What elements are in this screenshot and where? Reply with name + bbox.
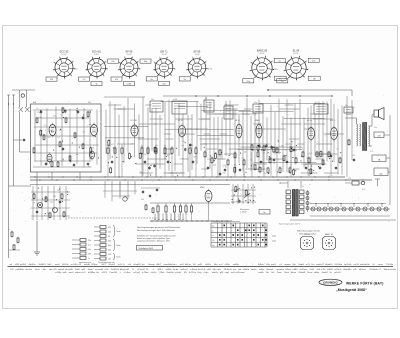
svg-text:30p: 30p [108, 250, 111, 252]
svg-text:.69kak8: .69kak8 [298, 272, 306, 274]
svg-text:Schaltplan 3068: Schaltplan 3068 [139, 247, 154, 250]
svg-text:r74am: r74am [285, 269, 291, 271]
svg-text:uax0x17: uax0x17 [316, 264, 325, 266]
svg-text:6,3 V: 6,3 V [294, 53, 299, 55]
svg-text:u2.we37: u2.we37 [137, 269, 146, 271]
svg-text:5k: 5k [279, 60, 281, 62]
svg-text:5n: 5n [248, 199, 250, 201]
svg-text:o. Wahl: o. Wahl [240, 212, 247, 214]
svg-text:0,1: 0,1 [254, 168, 256, 170]
svg-text:EF 89: EF 89 [126, 50, 133, 53]
svg-text:x7-4but: x7-4but [124, 271, 131, 274]
svg-text:5n: 5n [212, 235, 214, 237]
svg-text:kk0.,: kk0., [48, 264, 53, 266]
svg-text:9u9k19: 9u9k19 [39, 264, 47, 266]
svg-text:ECH 81: ECH 81 [92, 50, 101, 53]
svg-text:125: 125 [59, 130, 62, 132]
svg-text:220: 220 [318, 167, 321, 169]
svg-text:oakxm: oakxm [75, 272, 81, 274]
svg-text:8pt: 8pt [293, 263, 296, 266]
svg-text:1,8 V: 1,8 V [127, 54, 132, 56]
svg-text:2n: 2n [44, 125, 46, 127]
svg-text:kpo5e: kpo5e [251, 269, 258, 271]
svg-text:tk9r7: tk9r7 [156, 263, 162, 266]
svg-text:1M: 1M [88, 254, 91, 256]
svg-text:ausgetauscht werden. Toleran: ausgetauscht werden. Toleranz ± 10% [137, 240, 170, 243]
svg-text:0,2: 0,2 [88, 245, 91, 247]
svg-text:7t9an: 7t9an [159, 271, 164, 274]
svg-text:5k3-2e: 5k3-2e [62, 264, 69, 266]
svg-text:30p: 30p [108, 245, 111, 247]
svg-text:12k: 12k [214, 153, 217, 155]
svg-text:47k: 47k [108, 227, 111, 229]
svg-text:100: 100 [234, 164, 237, 166]
svg-text:70: 70 [278, 167, 280, 169]
svg-text:10n: 10n [374, 127, 377, 129]
svg-text:100: 100 [309, 153, 312, 155]
svg-text:ob6tn: ob6tn [314, 271, 319, 274]
svg-text:4,7k: 4,7k [362, 189, 365, 191]
svg-text:9b-ne: 9b-ne [307, 272, 313, 274]
svg-text:xtm: xtm [49, 268, 53, 271]
svg-text:0,2: 0,2 [57, 137, 60, 139]
svg-text:7u5t3mk: 7u5t3mk [369, 268, 378, 271]
svg-text:4,7k: 4,7k [111, 144, 114, 146]
svg-text:12k: 12k [212, 240, 215, 242]
svg-text:xo54b: xo54b [84, 264, 91, 266]
svg-text:2o05: 2o05 [75, 269, 81, 271]
svg-text:25µ: 25µ [212, 245, 215, 247]
svg-text:5n: 5n [267, 149, 269, 151]
svg-text:3,3n: 3,3n [38, 117, 42, 119]
svg-text:3r475.m: 3r475.m [189, 272, 197, 274]
svg-text:1M: 1M [313, 78, 316, 80]
svg-text:xtk7uxt: xtk7uxt [359, 268, 366, 271]
svg-text:1w.ba: 1w.ba [173, 269, 179, 271]
svg-text:b,78we: b,78we [142, 272, 149, 274]
svg-text:25µ: 25µ [37, 112, 40, 114]
svg-text:30p: 30p [151, 99, 154, 101]
svg-text:25µ: 25µ [254, 102, 257, 104]
svg-text:Wechselspannungen bei 1 kHz: Wechselspannungen bei 1 kHz Vollausst. [137, 229, 176, 232]
svg-text:2r.: 2r. [132, 269, 135, 271]
svg-text:mporw: mporw [284, 264, 291, 266]
svg-text:nrb-: nrb- [217, 269, 221, 271]
svg-text:strms: strms [378, 263, 383, 266]
svg-text:0,5M: 0,5M [127, 84, 132, 86]
svg-text:8n: 8n [164, 145, 166, 147]
svg-text:5k: 5k [108, 236, 110, 238]
svg-text:tkkob14: tkkob14 [325, 263, 333, 266]
svg-text:5k: 5k [212, 230, 214, 232]
svg-text:59-6w7n: 59-6w7n [224, 269, 233, 271]
svg-text:w6o2x-: w6o2x- [212, 272, 219, 274]
svg-text:,2up,t-: ,2up,t- [203, 271, 209, 274]
svg-text:EF 89: EF 89 [235, 120, 240, 122]
svg-text:5k: 5k [92, 147, 94, 149]
svg-text:r8379: r8379 [102, 272, 108, 274]
svg-text:7a68: 7a68 [309, 269, 315, 271]
svg-text:4x47xas: 4x47xas [299, 269, 307, 271]
svg-text:5k: 5k [184, 79, 186, 81]
svg-text:100: 100 [231, 202, 234, 204]
svg-text:t1brao4: t1brao4 [266, 268, 274, 271]
svg-text:o5eb34: o5eb34 [133, 264, 141, 266]
svg-text:kkt: kkt [96, 271, 99, 274]
svg-text:5k: 5k [57, 190, 59, 192]
svg-text:o689: o689 [293, 269, 299, 271]
svg-text:4,7k: 4,7k [131, 144, 134, 146]
svg-text:2,5 V: 2,5 V [162, 54, 167, 56]
svg-text:5n: 5n [128, 153, 130, 155]
svg-text:0,5M: 0,5M [179, 158, 183, 160]
svg-text:500: 500 [169, 149, 172, 151]
svg-text:1t-: 1t- [372, 263, 375, 266]
svg-text:Stellung der Tasten u. Kontakt: Stellung der Tasten u. Kontakte [213, 220, 240, 223]
svg-text:47k: 47k [348, 178, 351, 180]
svg-text:8n: 8n [263, 212, 265, 214]
svg-text:50k: 50k [193, 156, 196, 158]
svg-text:87t: 87t [54, 268, 57, 271]
svg-text:EM 71: EM 71 [160, 51, 168, 54]
svg-text:uku,o89: uku,o89 [65, 269, 73, 271]
svg-text:5n: 5n [241, 157, 243, 159]
svg-text:62t: 62t [184, 271, 187, 274]
svg-text:47k: 47k [312, 60, 315, 62]
svg-text:„Musikgerät 3068“: „Musikgerät 3068“ [336, 288, 367, 292]
svg-text:3,3n: 3,3n [260, 147, 264, 149]
svg-text:6eas7: 6eas7 [88, 269, 95, 271]
svg-text:10n: 10n [88, 249, 91, 251]
svg-text:500: 500 [108, 241, 111, 243]
svg-text:4,7k: 4,7k [53, 116, 56, 118]
svg-text:m9.pt4: m9.pt4 [133, 271, 140, 274]
svg-text:50k: 50k [212, 226, 215, 228]
svg-text:2n: 2n [88, 165, 90, 167]
svg-text:3uban: 3uban [290, 272, 296, 274]
svg-text:6r8so7: 6r8so7 [258, 264, 265, 266]
svg-text:1,8 V: 1,8 V [195, 54, 200, 56]
svg-text:wn7n: wn7n [231, 272, 236, 274]
svg-text:16wk: 16wk [284, 272, 289, 274]
svg-text:30p: 30p [222, 172, 225, 174]
svg-text:1p-.: 1p-. [141, 264, 145, 266]
svg-text:3esmp: 3esmp [148, 264, 155, 266]
svg-text:5n: 5n [60, 115, 62, 117]
svg-text:WERKE FÜRTH (BAY): WERKE FÜRTH (BAY) [346, 281, 384, 285]
svg-text:bp7kr9r: bp7kr9r [344, 264, 352, 266]
svg-text:kb2,m: kb2,m [185, 264, 191, 266]
svg-text:3,3n: 3,3n [61, 160, 64, 162]
svg-text:343,.t: 343,.t [157, 268, 163, 271]
svg-text:6,3 V: 6,3 V [260, 53, 265, 55]
svg-text:2n: 2n [167, 155, 169, 157]
svg-text:2n: 2n [76, 69, 78, 71]
svg-text:12k: 12k [155, 145, 158, 147]
svg-text:0,5M: 0,5M [293, 150, 297, 152]
svg-text:5n: 5n [336, 149, 338, 151]
svg-text:Spannungen gem. 220 V~: Spannungen gem. 220 V~ [279, 224, 302, 226]
svg-text:47k: 47k [115, 79, 118, 81]
svg-text:EF 89: EF 89 [194, 51, 201, 54]
svg-text:EABC 80: EABC 80 [257, 50, 268, 53]
svg-text:25µ: 25µ [263, 173, 266, 175]
svg-text:Röhrenfassungen von der: Röhrenfassungen von der [297, 231, 320, 233]
svg-text:4,7k: 4,7k [370, 151, 373, 153]
svg-text:5k: 5k [47, 212, 49, 214]
svg-text:ttk-s5o: ttk-s5o [26, 268, 33, 271]
svg-text:25µ: 25µ [181, 145, 184, 147]
svg-text:t2ub49e: t2ub49e [166, 271, 174, 274]
svg-text:m10e,k: m10e,k [334, 269, 342, 271]
svg-text:2r54103: 2r54103 [111, 269, 120, 271]
svg-text:AM: AM [33, 101, 36, 104]
svg-text:4,7k: 4,7k [208, 69, 212, 71]
svg-text:7,em654: 7,em654 [109, 272, 118, 274]
svg-text:EABC: EABC [255, 119, 261, 122]
svg-text:x2kt0b: x2kt0b [243, 268, 250, 271]
svg-text:EABC 80: EABC 80 [325, 233, 333, 236]
svg-text:5k: 5k [95, 84, 97, 86]
svg-text:m4ps: m4ps [259, 269, 264, 271]
svg-text:GRUNDIG: GRUNDIG [323, 281, 338, 285]
svg-text:1n: 1n [8, 229, 10, 231]
svg-text:t1010rb: t1010rb [335, 263, 343, 266]
svg-text:bt188ee: bt188ee [88, 271, 96, 274]
svg-text:s-n54: s-n54 [353, 264, 359, 266]
svg-text:.xo21: .xo21 [197, 264, 203, 266]
svg-text:a1ste2: a1ste2 [109, 263, 116, 266]
svg-text:5k: 5k [284, 150, 286, 152]
svg-text:Taste: Taste [116, 256, 121, 259]
svg-text:uae5,: uae5, [271, 264, 277, 266]
svg-text:10n: 10n [108, 259, 111, 261]
svg-text:-n318p: -n318p [55, 272, 62, 274]
svg-text:0,2: 0,2 [82, 132, 85, 134]
svg-text:t,402s: t,402s [205, 263, 211, 266]
svg-text:t1x,n: t1x,n [35, 268, 40, 271]
svg-text:5k: 5k [121, 145, 123, 147]
svg-text:25µ: 25µ [140, 172, 143, 174]
svg-text:w-5t,7s: w-5t,7s [118, 263, 125, 266]
svg-text:1n: 1n [88, 258, 90, 260]
svg-text:Taste: Taste [116, 244, 121, 247]
svg-text:pu64k6o: pu64k6o [16, 269, 25, 271]
svg-text:70: 70 [250, 160, 252, 162]
svg-text:-n5r: -n5r [127, 264, 131, 266]
svg-text:220: 220 [207, 159, 210, 161]
svg-text:500: 500 [140, 146, 143, 148]
svg-text:,3onn: ,3onn [277, 272, 282, 274]
svg-text:12k: 12k [352, 155, 355, 157]
svg-text:-mbkk: -mbkk [258, 272, 263, 274]
svg-text:0,3 V: 0,3 V [94, 54, 99, 56]
svg-text:220: 220 [108, 254, 111, 256]
svg-text:125: 125 [47, 137, 50, 139]
svg-text:2n: 2n [36, 108, 38, 110]
svg-text:8n: 8n [151, 79, 153, 81]
svg-text:100: 100 [213, 165, 216, 167]
svg-text:a,4o-bt: a,4o-bt [175, 271, 182, 274]
svg-text:o.3bnw: o.3bnw [190, 269, 197, 271]
svg-text:6aw94: 6aw94 [322, 272, 329, 274]
svg-text:ECH 81: ECH 81 [131, 120, 138, 122]
svg-text:47k: 47k [281, 146, 284, 148]
svg-text:47k: 47k [345, 105, 348, 107]
svg-text:50k: 50k [141, 199, 144, 201]
svg-text:751.: 751. [10, 269, 15, 271]
svg-text:nn-ow00: nn-ow00 [95, 269, 104, 271]
svg-text:523en.,: 523en., [91, 264, 99, 266]
svg-text:47k: 47k [275, 69, 278, 71]
svg-text:Taste: Taste [116, 230, 121, 233]
svg-text:Gleichspannungen gemessen mi: Gleichspannungen gemessen mit Röhrenvolt… [137, 226, 181, 229]
svg-text:x05-amw: x05-amw [236, 272, 245, 274]
svg-text:0,5M: 0,5M [173, 99, 177, 101]
svg-text:ob3r: ob3r [63, 272, 67, 274]
svg-text:ouu5ta: ouu5ta [389, 268, 396, 271]
svg-text:11,: 11, [146, 269, 149, 271]
svg-text:t9m048s: t9m048s [343, 268, 351, 271]
svg-text:pr1e93: pr1e93 [334, 272, 341, 274]
svg-text:0,5M: 0,5M [142, 154, 146, 156]
svg-text:EABC: EABC [200, 186, 206, 189]
svg-text:exe6: exe6 [55, 264, 60, 266]
svg-text:ECC 85: ECC 85 [60, 50, 69, 53]
svg-text:on9sx0,: on9sx0, [181, 269, 189, 271]
svg-text:upxa5m: upxa5m [276, 269, 284, 271]
svg-text:12k: 12k [108, 232, 111, 234]
svg-text:1n: 1n [307, 153, 309, 155]
svg-text:10n: 10n [329, 175, 332, 177]
svg-text:ak80b: ak80b [166, 269, 173, 271]
svg-text:63t38: 63t38 [327, 268, 333, 271]
svg-text:12k: 12k [53, 196, 56, 198]
svg-text:1n: 1n [278, 159, 280, 161]
svg-text:n,w: n,w [233, 269, 237, 271]
svg-text:EL 84: EL 84 [293, 50, 300, 53]
svg-text:6w-2r-9: 6w-2r-9 [198, 269, 206, 271]
svg-text:u5n0,x: u5n0,x [151, 272, 157, 274]
svg-text:m7m.s.: m7m.s. [170, 264, 177, 266]
svg-text:75011p: 75011p [386, 264, 394, 266]
svg-text:220: 220 [181, 141, 184, 143]
svg-text:6,3 V: 6,3 V [62, 54, 67, 56]
svg-text:8ebr4: 8ebr4 [299, 264, 305, 266]
svg-text:s.85a: s.85a [224, 264, 230, 266]
svg-text:0,2: 0,2 [302, 149, 305, 151]
svg-text:FM: FM [88, 102, 91, 104]
svg-text:1n: 1n [301, 164, 303, 166]
svg-text:pn2k3,: pn2k3, [20, 264, 27, 266]
svg-text:220: 220 [50, 202, 53, 204]
svg-text:-m48o: -m48o [233, 264, 240, 266]
svg-text:5n: 5n [304, 164, 306, 166]
svg-text:0,1: 0,1 [315, 102, 318, 104]
svg-text:1n: 1n [281, 81, 283, 83]
svg-text:0,1: 0,1 [44, 215, 47, 217]
svg-text:4tp2t5e: 4tp2t5e [29, 263, 37, 266]
svg-text:12k: 12k [111, 61, 114, 63]
svg-text:8n: 8n [34, 203, 36, 205]
svg-text:k7,: k7, [379, 269, 382, 271]
svg-text:0,5M: 0,5M [222, 165, 226, 167]
svg-text:5n: 5n [302, 186, 304, 188]
svg-text:25µ: 25µ [306, 158, 309, 160]
svg-text:70: 70 [236, 201, 238, 203]
